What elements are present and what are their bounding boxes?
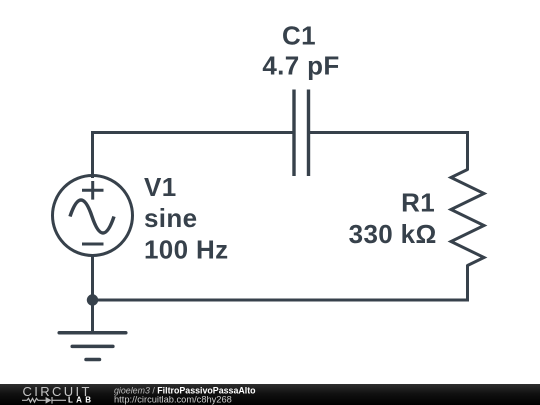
capacitor C1 <box>294 90 309 177</box>
footer credits <box>114 385 256 404</box>
svg-text:sine: sine <box>144 203 197 233</box>
svg-text:C1: C1 <box>282 21 316 51</box>
svg-text:V1: V1 <box>144 172 177 202</box>
wire from V1 bottom to junction <box>91 254 94 300</box>
ground <box>59 333 126 360</box>
resistor R1 <box>451 170 484 266</box>
svg-text:4.7 pF: 4.7 pF <box>262 51 339 81</box>
junction node <box>87 294 98 305</box>
wire from R1 bottom to junction <box>93 265 468 301</box>
wire from V1 top to C1 left plate <box>93 133 293 179</box>
svg-text:330 kΩ: 330 kΩ <box>349 219 437 249</box>
wire from junction to ground <box>91 300 94 334</box>
voltage source V1 <box>53 176 133 256</box>
wire from C1 right plate to R1 top <box>310 133 468 171</box>
CircuitLab logo <box>22 384 91 404</box>
footer bar <box>0 384 540 405</box>
svg-text:LAB: LAB <box>68 395 91 404</box>
svg-text:http://circuitlab.com/c8hy268: http://circuitlab.com/c8hy268 <box>114 395 232 405</box>
svg-text:100 Hz: 100 Hz <box>144 234 228 264</box>
svg-text:R1: R1 <box>401 188 435 218</box>
